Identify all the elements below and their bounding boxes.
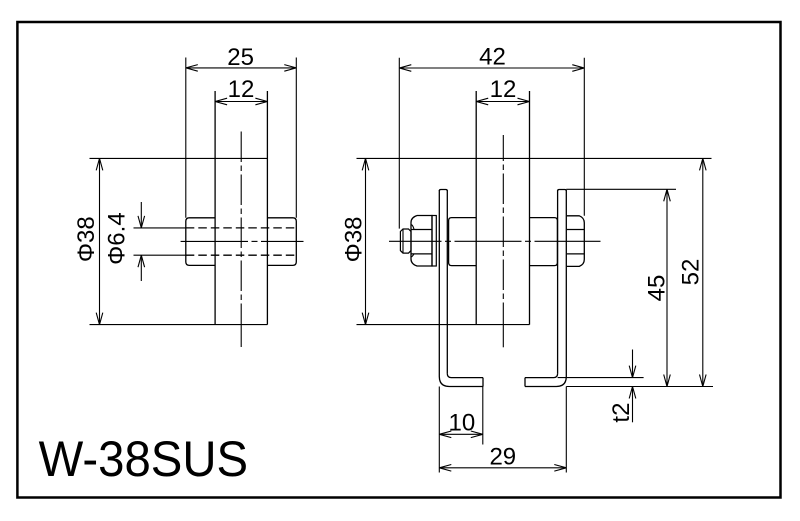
left view hub boss right <box>267 218 296 266</box>
washer <box>432 216 436 267</box>
svg-text:29: 29 <box>489 443 516 470</box>
dimension Phi38 (right view) <box>341 158 712 324</box>
svg-text:10: 10 <box>449 410 476 437</box>
left view horizontal centerline <box>181 240 304 242</box>
left view hidden bore line lower (dashed) <box>186 254 296 256</box>
hex nut <box>411 216 432 267</box>
dimension 45 (bracket height) <box>566 189 676 386</box>
left view hidden bore line upper (dashed) <box>186 227 296 229</box>
svg-text:t2: t2 <box>608 403 635 423</box>
dimension 29 (bracket span) <box>439 387 566 473</box>
bolt hex head <box>567 216 584 267</box>
svg-text:12: 12 <box>490 76 517 103</box>
svg-text:25: 25 <box>227 44 254 71</box>
right view wheel (side) <box>476 91 529 325</box>
svg-text:42: 42 <box>479 44 506 71</box>
svg-text:45: 45 <box>644 275 671 302</box>
dimension 10 (foot length) <box>439 387 483 445</box>
dimension 25 (hub width) <box>186 44 296 218</box>
dimension Phi38 (left view) <box>73 158 267 324</box>
dimension 12 (tread width, right view) <box>476 76 529 105</box>
left view vertical centerline <box>240 132 242 348</box>
dimension 52 (overall height) <box>678 158 707 386</box>
svg-text:52: 52 <box>678 259 705 286</box>
left view hub boss left <box>186 218 215 266</box>
svg-text:Φ38: Φ38 <box>341 216 368 262</box>
svg-text:Φ38: Φ38 <box>73 216 100 262</box>
svg-text:12: 12 <box>228 76 255 103</box>
foot top extension line (t2) <box>558 377 644 379</box>
right view vertical centerline <box>502 135 504 347</box>
right bracket L-profile <box>525 190 566 387</box>
dimension t2 (plate thickness) <box>608 350 636 423</box>
dimension 12 (tread width, left view) <box>215 76 267 105</box>
svg-text:W-38SUS: W-38SUS <box>39 431 249 487</box>
dimension Phi6.4 (bore) <box>104 202 186 281</box>
foot bottom extension line <box>566 386 713 388</box>
dimension 42 (overall width) <box>399 44 584 229</box>
bolt threaded tip <box>400 229 411 253</box>
left view wheel disc (width 12, dia 38) <box>215 91 267 325</box>
right view hub boss left <box>449 218 477 266</box>
left bracket L-profile <box>439 190 483 387</box>
svg-text:Φ6.4: Φ6.4 <box>104 212 131 265</box>
right view horizontal centerline <box>389 240 601 242</box>
right view hub boss right <box>530 218 558 266</box>
